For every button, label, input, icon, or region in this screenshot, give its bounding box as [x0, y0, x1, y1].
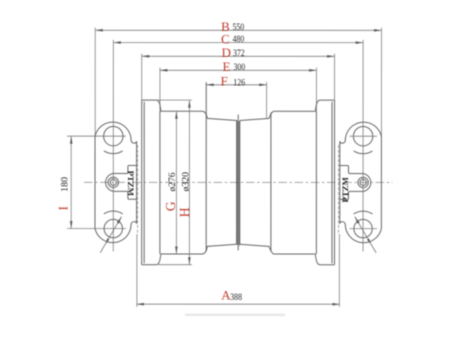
roller right end face: [333, 100, 335, 265]
left bracket bottom hole leader: [100, 217, 121, 253]
left bracket bottom hole boss arc: [104, 211, 123, 214]
center weld seam top stub: [237, 115, 239, 121]
right bracket recess notch and middle boss: [340, 166, 371, 200]
svg-text:126: 126: [233, 78, 245, 88]
main centerline (dash-dot): [84, 181, 392, 183]
svg-text:ø320: ø320: [181, 172, 191, 192]
svg-text:372: 372: [233, 49, 245, 59]
svg-text:300: 300: [234, 63, 246, 73]
svg-text:E: E: [223, 59, 231, 74]
dimension D extension lines: [141, 54, 143, 100]
svg-text:F: F: [221, 73, 228, 88]
dimension D 372 line: [142, 55, 335, 57]
right bracket top hole crosshair horizontal: [350, 135, 378, 137]
dimension B extension lines: [94, 28, 96, 137]
right bracket bottom hole crosshair horizontal: [349, 228, 377, 230]
right leader lower arrowhead: [367, 238, 371, 244]
left flange inner face line: [159, 111, 161, 254]
dimension G phi276 vertical line: [175, 111, 177, 254]
left bracket middle hole inner: [110, 179, 116, 185]
roller body outline bottom profile: [142, 244, 335, 264]
right bracket middle hole outer: [358, 177, 368, 187]
right bracket bottom hole leader: [355, 217, 376, 253]
right flange inner face line: [315, 111, 317, 254]
dimension B 550 line: [95, 29, 381, 31]
dimension F right extension line: [266, 82, 268, 119]
svg-text:G: G: [163, 201, 178, 211]
right hidden axle end (dashed): [338, 145, 340, 234]
svg-text:ø276: ø276: [168, 172, 178, 191]
roller right end chamfer line: [331, 102, 333, 263]
svg-text:H: H: [177, 207, 192, 217]
right bracket top hole: [353, 127, 372, 146]
left bracket outline: [95, 122, 137, 243]
dimension F 126 line: [206, 84, 266, 86]
left hidden axle end (dashed): [137, 145, 139, 234]
svg-text:480: 480: [233, 35, 245, 45]
left bracket middle hole outer: [108, 177, 118, 187]
right tread step line: [270, 113, 272, 252]
left bracket top hole boss arc: [104, 151, 123, 154]
right bracket bottom hole: [354, 219, 372, 237]
roller left end chamfer line: [143, 102, 145, 263]
dimension I 180 vertical line: [70, 136, 72, 228]
svg-text:PTZM: PTZM: [340, 177, 350, 202]
left bracket recess notch and middle boss: [106, 165, 137, 199]
right bracket outline: [340, 122, 382, 243]
dimension C 480 line: [113, 42, 363, 44]
left tread step line (with F extension): [205, 82, 207, 251]
I bottom extension horizontal (through bottom hole): [67, 228, 126, 230]
right bracket middle hole inner: [360, 179, 366, 185]
left bracket bottom hole: [104, 219, 122, 237]
right bracket top hole boss arc: [354, 151, 373, 154]
dimension E 300 line: [160, 69, 317, 71]
dimension C extension / bracket hole centerlines: [112, 40, 114, 252]
dimension A extension lines: [136, 234, 138, 307]
right bracket bottom hole boss arc: [354, 211, 373, 214]
faint eraser smudge bottom: [185, 313, 285, 316]
svg-text:180: 180: [60, 177, 70, 192]
roller body outline top profile: [142, 100, 335, 120]
H bottom extension horizontal: [158, 264, 192, 266]
svg-text:388: 388: [230, 293, 242, 303]
left bracket top hole: [104, 126, 123, 145]
dimension H phi320 vertical line: [188, 100, 190, 265]
center weld seam band left edge: [236, 121, 238, 245]
svg-text:I: I: [56, 206, 71, 210]
H top extension horizontal: [157, 99, 192, 101]
dimension E extension lines: [159, 68, 161, 112]
svg-text:D: D: [222, 45, 231, 60]
center weld knurl texture: [236, 121, 239, 246]
dimension A 388 line: [136, 303, 339, 305]
left leader lower arrowhead: [105, 238, 109, 244]
center weld seam bottom stub: [237, 244, 239, 250]
svg-text:PTZM: PTZM: [126, 171, 136, 196]
svg-text:550: 550: [233, 23, 245, 33]
I top extension horizontal (through top hole): [67, 135, 126, 137]
roller left end face: [141, 100, 143, 265]
center weld seam band right edge: [239, 121, 241, 245]
